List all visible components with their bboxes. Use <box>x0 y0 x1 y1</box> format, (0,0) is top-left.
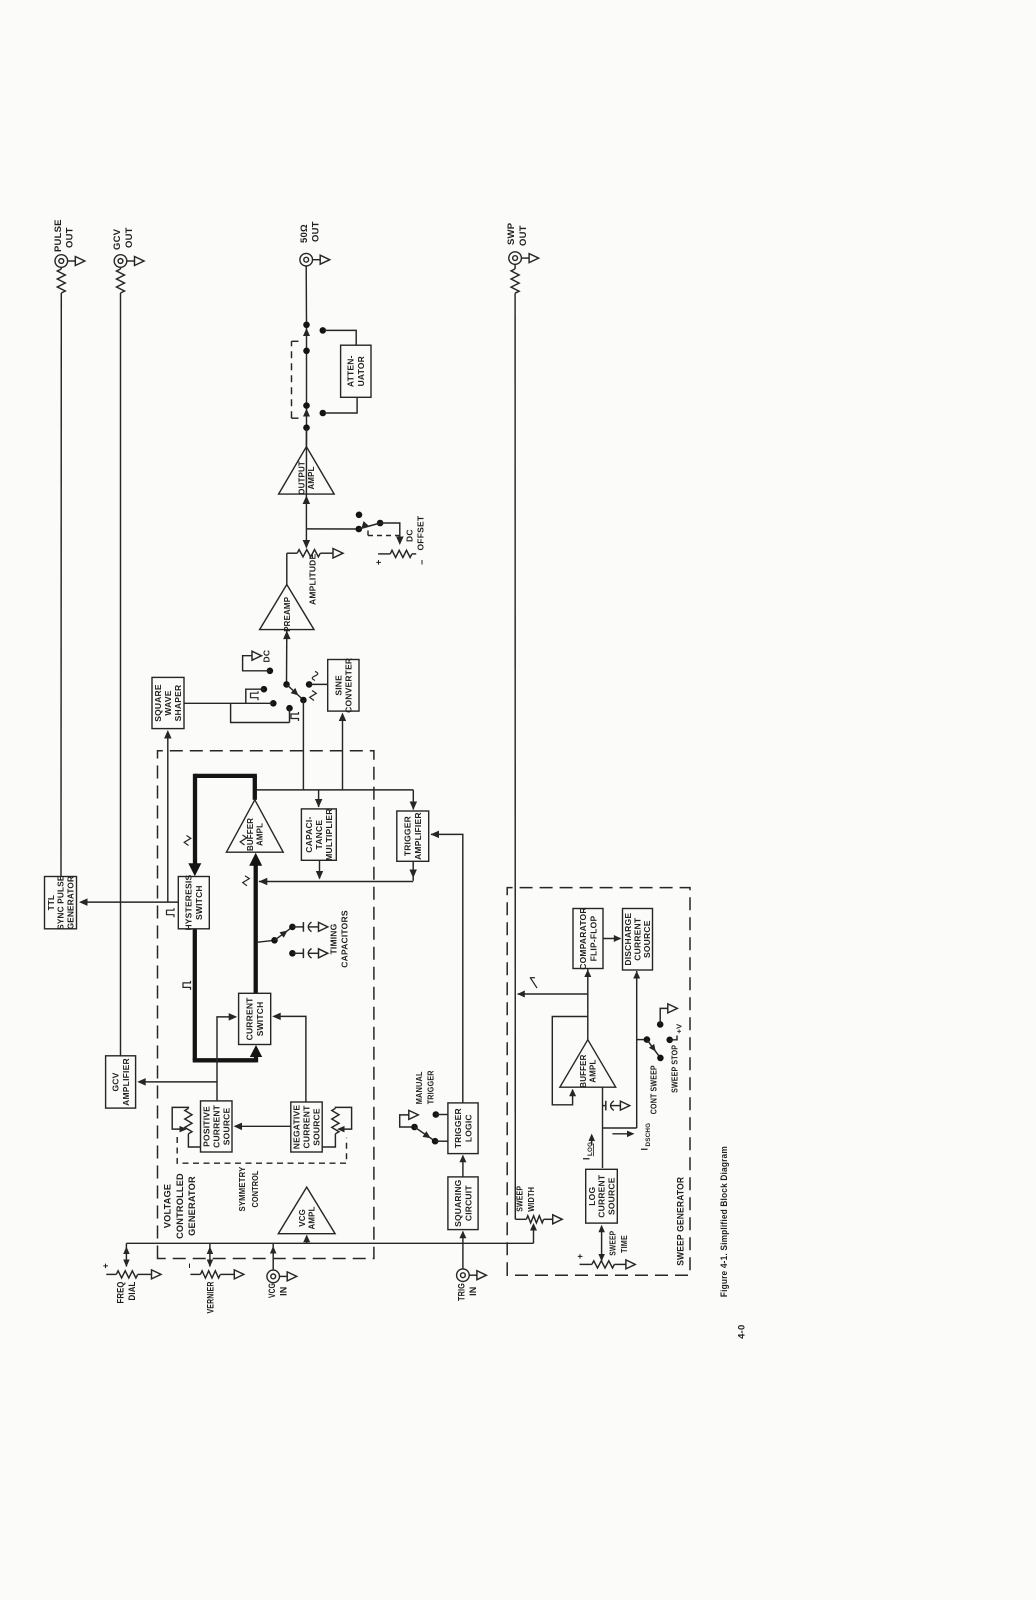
svg-text:DC: DC <box>405 529 415 542</box>
resistor R2 (GCV OUT series) <box>117 269 125 293</box>
svg-text:+: + <box>575 1254 585 1259</box>
svg-text:CAPACI-: CAPACI- <box>304 817 314 853</box>
svg-text:OFFSET: OFFSET <box>416 515 426 550</box>
block GCV AMPLIFIER <box>106 1056 136 1108</box>
panel triangle (AMPLITUDE) <box>333 549 343 559</box>
wire triangle contact to bus <box>302 700 304 790</box>
connector J5 VCG IN <box>267 1270 280 1283</box>
op-amp OUTPUT AMPL <box>279 447 335 495</box>
svg-text:AMPL: AMPL <box>307 466 316 489</box>
switch S5 MANUAL TRIGGER <box>409 1110 419 1119</box>
block NEGATIVE CURRENT SOURCE <box>291 1102 322 1152</box>
wire integrator to log current source <box>602 1128 604 1168</box>
svg-text:TIMING: TIMING <box>329 923 339 954</box>
svg-text:AMPLITUDE: AMPLITUDE <box>308 553 318 605</box>
op-amp PREAMP <box>260 585 314 630</box>
switch S3 function selector pole <box>283 681 290 688</box>
wire comparator to discharge source <box>603 938 621 940</box>
wire bus to capacitance multiplier <box>318 790 320 807</box>
wire vcg ampl input <box>306 1236 308 1244</box>
wire attenuator output tap <box>320 410 327 417</box>
wire capacitance multiplier output <box>319 860 321 878</box>
block LOG CURRENT SOURCE <box>586 1169 618 1223</box>
waveform glyph (ramp) near sweep output <box>530 978 537 988</box>
connector J3 50&#937; OUT <box>300 253 313 266</box>
capacitor C2 (timing) <box>289 950 296 957</box>
wire vernier wiper <box>209 1243 211 1266</box>
node square contact A <box>261 686 268 693</box>
svg-text:FREQ: FREQ <box>116 1282 126 1304</box>
dashed enclosure SWEEP GENERATOR <box>507 888 690 1276</box>
svg-text:SWEEP STOP: SWEEP STOP <box>670 1045 680 1093</box>
svg-text:SYNC PULSE: SYNC PULSE <box>57 875 66 930</box>
thick wire hysteresis to current switch <box>193 929 197 1061</box>
wire shaper input <box>167 737 169 902</box>
connector J1 PULSE OUT <box>55 255 68 268</box>
svg-text:TTL: TTL <box>47 895 56 911</box>
svg-text:BUFFER: BUFFER <box>579 1054 588 1087</box>
svg-text:PULSE: PULSE <box>53 219 64 252</box>
svg-text:CURRENT: CURRENT <box>302 1105 312 1149</box>
switch S2 DC OFFSET <box>306 528 358 530</box>
wire trig in to squaring circuit <box>462 1232 464 1269</box>
svg-text:CONTROLLED: CONTROLLED <box>175 1173 185 1239</box>
current label I LOG <box>591 1136 593 1145</box>
svg-text:DSCHG: DSCHG <box>645 1123 652 1147</box>
wire trigger amplifier output <box>412 861 414 881</box>
wire amplitude wiper <box>305 529 307 548</box>
svg-text:OUT: OUT <box>124 227 135 248</box>
wire sweep buffer output <box>587 969 589 1040</box>
thick wire current switch to buffer input <box>254 863 258 994</box>
switch S7 SWEEP STOP <box>657 1021 664 1028</box>
capacitor C1 (timing) <box>289 924 296 931</box>
thick wire buffer output to hysteresis switch <box>253 776 257 800</box>
svg-text:WIDTH: WIDTH <box>527 1187 536 1212</box>
wire main control line <box>126 1242 533 1244</box>
switch S3 arm <box>287 684 304 700</box>
wire attenuator input tap <box>320 327 327 334</box>
svg-text:SWEEP: SWEEP <box>516 1186 525 1212</box>
block TRIGGER AMPLIFIER <box>397 811 429 861</box>
svg-text:ATTEN-: ATTEN- <box>346 355 356 387</box>
op-amp VCG AMPL <box>278 1187 335 1234</box>
wire sweep buffer feedback <box>552 1017 588 1105</box>
svg-text:SINE: SINE <box>333 675 343 696</box>
svg-text:CURRENT: CURRENT <box>245 997 255 1041</box>
svg-text:TRIGGER: TRIGGER <box>426 1070 436 1104</box>
wire sweep time to log source <box>601 1226 603 1261</box>
svg-text:LOG: LOG <box>587 1187 597 1206</box>
svg-text:GENERATOR: GENERATOR <box>66 876 75 929</box>
svg-text:I: I <box>582 1157 592 1160</box>
svg-text:OUT: OUT <box>65 227 76 248</box>
svg-text:TIME: TIME <box>620 1235 629 1253</box>
node square contact B <box>270 700 277 707</box>
potentiometer symmetry (positive) <box>185 1108 192 1133</box>
svg-text:PREAMP: PREAMP <box>283 597 292 632</box>
block TTL SYNC PULSE GENERATOR <box>45 877 77 929</box>
potentiometer VERNIER <box>190 1273 200 1275</box>
wire triangle bus <box>257 789 414 791</box>
wire dc offset contact to pot <box>380 523 400 544</box>
block SINE CONVERTER <box>328 660 359 712</box>
svg-text:+: + <box>374 560 384 565</box>
svg-text:VCG: VCG <box>267 1283 277 1298</box>
wire positive source to current switch <box>217 1017 231 1101</box>
svg-text:Figure 4-1. Simplified Block: Figure 4-1. Simplified Block Diagram <box>719 1146 730 1297</box>
switch S4 timing capacitor select <box>258 940 275 942</box>
svg-text:DISCHARGE: DISCHARGE <box>623 913 633 966</box>
wire GCV amplifier input <box>145 1081 218 1083</box>
current label I DSCHG <box>612 1133 628 1135</box>
svg-text:AMPL: AMPL <box>308 1206 317 1229</box>
svg-text:MULTIPLIER: MULTIPLIER <box>324 808 334 860</box>
svg-text:CONVERTER: CONVERTER <box>344 658 354 713</box>
svg-text:VCG: VCG <box>298 1209 307 1227</box>
block COMPARATOR FLIP-FLOP <box>573 909 603 969</box>
svg-text:50Ω: 50Ω <box>299 224 310 243</box>
wire 50 ohm output line <box>305 266 307 325</box>
svg-text:VOLTAGE: VOLTAGE <box>163 1184 173 1228</box>
node sine contact <box>306 681 313 688</box>
svg-text:IN: IN <box>468 1287 478 1296</box>
svg-text:GCV: GCV <box>111 1072 121 1091</box>
block CURRENT SWITCH <box>239 993 271 1044</box>
resistor R1 (PULSE OUT series) <box>57 269 65 293</box>
svg-text:OUT: OUT <box>311 221 322 242</box>
wire sweep ramp output to SWP line <box>518 993 588 995</box>
svg-text:WAVE: WAVE <box>163 690 173 715</box>
wire shaper output to contacts <box>184 702 273 704</box>
switch S6 CONT SWEEP <box>637 1039 647 1041</box>
svg-text:POSITIVE: POSITIVE <box>201 1106 211 1147</box>
svg-text:SQUARE: SQUARE <box>153 684 163 722</box>
svg-text:NEGATIVE: NEGATIVE <box>292 1105 302 1150</box>
wire hysteresis to TTL sync pulse generator <box>86 901 179 903</box>
svg-text:MANUAL: MANUAL <box>414 1071 424 1104</box>
svg-text:SOURCE: SOURCE <box>221 1107 231 1145</box>
connector J2 GCV OUT <box>114 255 127 268</box>
wire negative to positive (symmetry) <box>240 1125 291 1127</box>
svg-text:SQUARING: SQUARING <box>453 1179 463 1227</box>
svg-text:CIRCUIT: CIRCUIT <box>463 1185 473 1221</box>
block DISCHARGE CURRENT SOURCE <box>623 909 653 971</box>
wire SWP line <box>514 293 516 1219</box>
wire trigger node line <box>259 881 413 883</box>
svg-text:CONT SWEEP: CONT SWEEP <box>649 1065 659 1114</box>
svg-text:GENERATOR: GENERATOR <box>187 1176 197 1236</box>
svg-text:TRIGGER: TRIGGER <box>403 816 413 856</box>
wire attenuator main line segments <box>305 428 307 494</box>
svg-text:HYSTERESIS: HYSTERESIS <box>184 875 194 931</box>
svg-text:TRIG: TRIG <box>457 1283 467 1301</box>
waveform glyph (square) near TTL line <box>167 908 175 917</box>
svg-text:OUT: OUT <box>518 225 529 246</box>
block SQUARE WAVE SHAPER <box>152 677 184 728</box>
svg-text:SOURCE: SOURCE <box>606 1177 616 1215</box>
svg-text:VERNIER: VERNIER <box>206 1281 216 1313</box>
connector J6 TRIG IN <box>457 1269 470 1282</box>
svg-text:GCV: GCV <box>112 228 123 250</box>
wire sine converter input <box>342 720 344 790</box>
svg-text:CURRENT: CURRENT <box>211 1104 221 1148</box>
wire bus to trigger amplifier <box>412 790 414 810</box>
waveform glyph (square) after hysteresis <box>183 981 191 990</box>
svg-text:SYMMETRY: SYMMETRY <box>237 1166 247 1211</box>
svg-text:UATOR: UATOR <box>356 356 366 386</box>
waveform glyph (triangle) near hysteresis input <box>184 836 191 846</box>
wire freq dial wiper <box>125 1243 127 1266</box>
wire GCV OUT line <box>120 293 122 1056</box>
wire preamp input <box>286 630 288 685</box>
wire squaring to trigger logic <box>462 1156 464 1177</box>
svg-text:SOURCE: SOURCE <box>642 920 652 958</box>
resistor R3 (SWP OUT series) <box>511 269 519 293</box>
svg-text:AMPL: AMPL <box>256 823 265 846</box>
svg-text:DC: DC <box>262 650 272 663</box>
svg-text:IN: IN <box>279 1287 289 1296</box>
svg-text:−: − <box>417 560 427 565</box>
waveform glyph (triangle) inside buffer <box>240 835 247 845</box>
dashed enclosure VOLTAGE CONTROLLED GENERATOR <box>158 751 374 1259</box>
svg-text:BUFFER: BUFFER <box>246 818 255 851</box>
mechanical linkage (dashed) for attenuator switch <box>291 341 293 418</box>
svg-text:SWEEP: SWEEP <box>609 1230 618 1255</box>
svg-text:SWP: SWP <box>506 222 517 245</box>
potentiometer SWEEP TIME <box>580 1263 592 1265</box>
svg-text:COMPARATOR: COMPARATOR <box>578 907 588 969</box>
svg-text:+: + <box>101 1263 111 1268</box>
svg-text:SHAPER: SHAPER <box>173 685 183 722</box>
potentiometer symmetry (negative) <box>332 1108 339 1133</box>
wire integrator node <box>602 1087 604 1128</box>
svg-text:I: I <box>640 1148 650 1151</box>
svg-text:SWITCH: SWITCH <box>194 885 204 920</box>
op-amp BUFFER AMPL (sweep) <box>560 1040 616 1088</box>
block POSITIVE CURRENT SOURCE <box>201 1101 233 1152</box>
wire discharge current path <box>636 971 638 1128</box>
node triangle contact <box>300 697 307 704</box>
wire vcg in <box>272 1243 274 1269</box>
waveform glyph (triangle) at node <box>243 876 250 886</box>
wire negative source to current switch <box>279 1016 306 1102</box>
svg-text:SWEEP GENERATOR: SWEEP GENERATOR <box>676 1177 686 1266</box>
wire output ampl input <box>305 494 307 529</box>
wire main line to sweep width <box>533 1229 535 1244</box>
potentiometer SWEEP WIDTH <box>515 1218 526 1220</box>
potentiometer AMPLITUDE <box>286 553 288 584</box>
block TRIGGER LOGIC <box>448 1103 478 1154</box>
mechanical linkage (dashed) dc offset <box>368 535 400 537</box>
capacitor C3 (sweep integrator) <box>603 1105 606 1107</box>
svg-text:−: − <box>185 1263 195 1268</box>
svg-text:DIAL: DIAL <box>127 1281 137 1300</box>
svg-text:SOURCE: SOURCE <box>312 1108 322 1146</box>
switch S1 attenuator in/out (series jacks) <box>303 322 310 329</box>
svg-text:+V: +V <box>675 1024 684 1034</box>
svg-text:AMPL: AMPL <box>589 1060 598 1083</box>
svg-text:CONTROL: CONTROL <box>250 1171 260 1208</box>
op-amp BUFFER AMPL (VCG) <box>226 800 283 852</box>
svg-text:TANCE: TANCE <box>314 820 324 850</box>
node square contact C <box>286 705 293 712</box>
svg-text:4-0: 4-0 <box>737 1324 748 1338</box>
wire shaper output branch to contact C <box>231 703 290 722</box>
connector J4 SWP OUT <box>509 252 522 265</box>
potentiometer DC OFFSET <box>378 553 390 555</box>
block ATTENUATOR <box>341 345 371 397</box>
svg-text:AMPLIFIER: AMPLIFIER <box>413 812 423 860</box>
block SQUARING CIRCUIT <box>448 1177 478 1230</box>
svg-text:FLIP-FLOP: FLIP-FLOP <box>588 916 598 962</box>
wire PULSE OUT line <box>60 293 62 877</box>
svg-text:OUTPUT: OUTPUT <box>298 461 307 495</box>
wire trigger logic to trigger amplifier <box>431 834 463 1103</box>
svg-text:CURRENT: CURRENT <box>633 917 643 961</box>
block CAPACITANCE MULTIPLIER <box>301 809 336 860</box>
svg-text:CAPACITORS: CAPACITORS <box>340 910 350 968</box>
block HYSTERESIS SWITCH <box>178 877 209 929</box>
svg-text:TRIGGER: TRIGGER <box>453 1108 463 1148</box>
mechanical linkage (dashed) symmetry control <box>177 1137 346 1163</box>
svg-text:LOGIC: LOGIC <box>463 1114 473 1142</box>
svg-text:SWITCH: SWITCH <box>255 1002 265 1037</box>
node DC contact <box>267 668 274 675</box>
svg-text:AMPLIFIER: AMPLIFIER <box>121 1058 131 1106</box>
potentiometer FREQ DIAL <box>106 1273 116 1275</box>
svg-text:CURRENT: CURRENT <box>597 1174 607 1218</box>
